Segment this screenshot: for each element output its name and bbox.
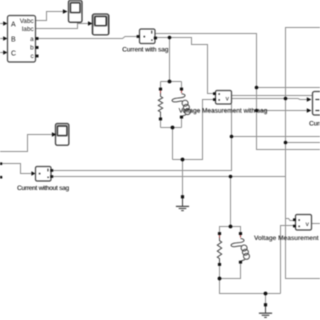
svg-text:Current with sag: Current with sag [122, 47, 169, 54]
svg-text:Vabc: Vabc [20, 18, 34, 25]
svg-text:Current: Current [309, 121, 320, 128]
svg-text:C: C [11, 50, 16, 57]
svg-text:Iabc: Iabc [22, 26, 34, 33]
svg-text:B: B [11, 36, 16, 43]
svg-text:b: b [30, 44, 34, 51]
svg-text:Voltage Measurement without sa: Voltage Measurement without sag [254, 235, 320, 242]
svg-text:A: A [11, 21, 16, 28]
svg-text:Current without sag: Current without sag [17, 185, 69, 192]
svg-text:Voltage Measurement with sag: Voltage Measurement with sag [179, 108, 268, 115]
svg-text:c: c [30, 53, 33, 60]
svg-text:a: a [30, 36, 34, 43]
